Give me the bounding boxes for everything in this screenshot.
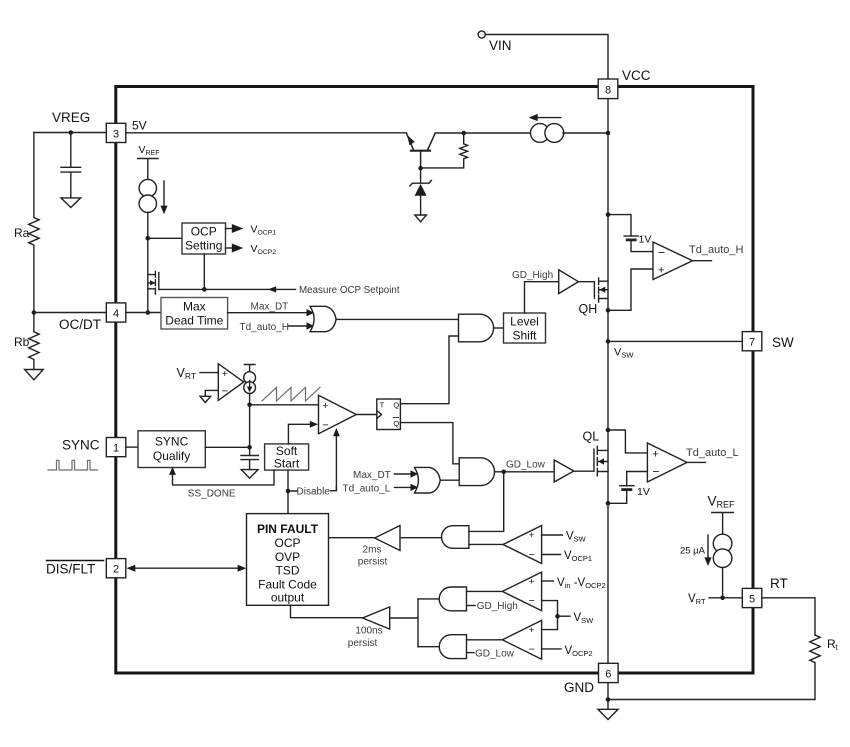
- ground under C2: [241, 470, 258, 479]
- svg-text:−: −: [529, 595, 535, 607]
- svg-text:Measure OCP Setpoint: Measure OCP Setpoint: [299, 285, 400, 296]
- wire Soft Start to comparator minus: [288, 424, 310, 444]
- wire pin6 to ground: [607, 683, 609, 710]
- wire AND1 to Level Shift: [494, 327, 504, 329]
- svg-text:+: +: [529, 530, 535, 541]
- wire U11 output: [687, 461, 706, 463]
- pin 3 box: [106, 123, 126, 142]
- svg-text:+: +: [222, 368, 228, 380]
- wire OR2 to AND2: [440, 479, 459, 481]
- wire Level Shift to GD_High buffer: [525, 282, 559, 313]
- svg-text:5V: 5V: [132, 119, 147, 133]
- svg-text:−: −: [652, 465, 659, 479]
- svg-text:OCP: OCP: [274, 536, 300, 550]
- wire AND2 output GD_Low: [495, 471, 555, 473]
- wire PIN FAULT to 2ms inverter: [329, 537, 375, 539]
- comparator U4 Td_auto_H: [653, 242, 693, 280]
- wire osc node down to cap: [249, 405, 251, 456]
- pin 8 box: [598, 79, 618, 99]
- wire U17 plus input: [542, 580, 554, 582]
- wire I1 to VCC rail: [563, 132, 608, 134]
- wire VRT to buffer: [200, 372, 218, 374]
- wire Max_DT to OR1: [228, 312, 307, 314]
- block Max Dead Time: [161, 298, 228, 330]
- svg-text:+: +: [322, 400, 328, 412]
- wire QL drain to comparator plus: [608, 430, 647, 453]
- svg-text:VREG: VREG: [52, 110, 90, 125]
- AND gate U9 (low-side gate): [459, 458, 494, 486]
- junction dot M1 to OC/DT: [146, 310, 151, 315]
- wire OCP node to OCP Setting box: [148, 237, 182, 239]
- wire U16 output: [418, 598, 439, 600]
- svg-text:VIN: VIN: [489, 38, 512, 53]
- wire Soft Start down to PIN FAULT: [287, 470, 289, 513]
- svg-text:QH: QH: [579, 302, 598, 316]
- wire DIS/FLT double arrow: [130, 567, 243, 569]
- svg-text:Max_DT: Max_DT: [353, 470, 391, 481]
- svg-text:Max_DT: Max_DT: [251, 302, 289, 313]
- wire battery to comparator minus: [631, 240, 653, 252]
- sawtooth waveform: [262, 387, 320, 401]
- svg-text:persist: persist: [348, 638, 378, 649]
- junction dot resistor top: [461, 131, 466, 136]
- block OCP Setting: [182, 223, 226, 254]
- wire U6 output to T FF: [356, 414, 377, 416]
- svg-text:5: 5: [749, 593, 755, 605]
- pin 7 box: [742, 332, 762, 351]
- junction dot VSW node: [606, 339, 611, 344]
- transistor QH: [599, 278, 608, 302]
- svg-text:+: +: [652, 449, 658, 461]
- AND gate U16 (GD_High gate, mirrored): [439, 587, 466, 611]
- stub GD_High into U16: [467, 605, 476, 607]
- output arrow VOCP1: [226, 228, 233, 230]
- sync pulse waveform: [48, 460, 98, 470]
- svg-text:Qualify: Qualify: [153, 449, 190, 463]
- OR gate U1 (high-side): [310, 306, 336, 331]
- svg-text:OC/DT: OC/DT: [59, 317, 101, 332]
- wire OCP Setting to measure line: [203, 254, 205, 289]
- resistor Rt: [608, 635, 820, 700]
- wire comparator1 to AND3: [469, 543, 503, 545]
- junction dot QH source sense: [606, 308, 611, 313]
- svg-text:1V: 1V: [637, 486, 650, 498]
- svg-text:RT: RT: [770, 576, 788, 591]
- wire U19 minus input VOCP2: [542, 648, 561, 650]
- M1 body arrow: [150, 280, 155, 285]
- OR gate U8 (low-side): [414, 467, 440, 493]
- wire U18 output: [418, 646, 439, 648]
- block SYNC Qualify: [138, 431, 205, 468]
- transistor M1 (OCP measure FET) gate bar and channel: [148, 272, 159, 295]
- wire Td_auto_H to OR1: [289, 325, 308, 327]
- current source I1 (VCC to 5V reg): [531, 124, 550, 143]
- current source I3 (osc charge): [244, 365, 255, 372]
- wire U4 output: [693, 260, 712, 262]
- svg-text:Td_auto_L: Td_auto_L: [686, 447, 739, 459]
- battery B1 1V: [624, 235, 638, 237]
- junction dot ground node: [606, 697, 611, 702]
- svg-text:Rb: Rb: [14, 335, 30, 349]
- svg-text:Q: Q: [393, 401, 399, 410]
- wire I4 to VRT node: [722, 568, 724, 598]
- Q1 emitter arrow: [407, 135, 415, 145]
- pin 2 box: [106, 559, 126, 578]
- svg-text:Setting: Setting: [185, 239, 222, 253]
- svg-text:output: output: [271, 591, 305, 605]
- junction dot QL source sense: [606, 501, 611, 506]
- junction dot Q1 base node: [418, 166, 423, 171]
- resistor R1 (base bleed): [421, 133, 468, 168]
- svg-text:Shift: Shift: [512, 329, 537, 343]
- wire OC/DT internal to Max Dead Time: [126, 312, 161, 314]
- svg-text:+: +: [529, 577, 535, 588]
- block Level Shift: [504, 313, 546, 343]
- svg-text:SW: SW: [772, 335, 794, 350]
- wire GD vertical to AND3 top input: [469, 472, 504, 532]
- svg-text:OCP: OCP: [191, 225, 217, 239]
- arrow I2 direction down: [163, 181, 165, 211]
- wire Max_DT to OR2: [395, 473, 412, 475]
- wire I2 to OCP Setting / M1 rail: [147, 212, 149, 312]
- block PIN FAULT: [247, 514, 329, 606]
- ground under Rb: [25, 370, 44, 380]
- wire OC/DT external: [34, 312, 106, 314]
- junction dot GD_Low: [501, 470, 506, 475]
- ground under C1: [61, 198, 81, 208]
- arrow I4 down: [707, 535, 709, 562]
- wire buffer to QH gate: [578, 282, 594, 298]
- svg-text:QL: QL: [583, 430, 600, 444]
- IC boundary box: [116, 87, 753, 674]
- AND gate U2 (high-side gate): [459, 314, 494, 342]
- wire comparator3 to U16: [467, 590, 503, 592]
- wire VIN to VCC pin: [485, 35, 608, 80]
- wire U14 minus input VOCP1: [542, 554, 561, 556]
- junction dot QH drain sense: [606, 212, 611, 217]
- pin 6 box: [599, 663, 619, 682]
- svg-text:Fault Code: Fault Code: [258, 578, 317, 592]
- svg-text:4: 4: [113, 308, 119, 320]
- junction dot VCC rail top: [606, 131, 611, 136]
- wire Td_auto_L to OR2: [395, 486, 412, 488]
- capacitor C1 (VREG bypass): [61, 133, 81, 198]
- svg-text:Ra: Ra: [14, 226, 30, 240]
- block Soft Start: [265, 444, 309, 470]
- buffer U3 (high-side driver): [559, 270, 579, 294]
- svg-text:GND: GND: [564, 680, 594, 695]
- svg-text:1: 1: [113, 443, 119, 455]
- svg-text:3: 3: [113, 128, 119, 140]
- svg-text:−: −: [222, 386, 228, 398]
- battery B2 1V: [620, 485, 634, 487]
- wire 5V rail Q1 collector to current source: [435, 132, 531, 134]
- svg-text:Max: Max: [183, 300, 206, 314]
- buffer U10 (low-side driver): [554, 460, 574, 482]
- inverter U15 (100ns persist): [363, 607, 390, 629]
- wire U12 to AND3: [400, 537, 442, 539]
- svg-text:100ns: 100ns: [355, 625, 382, 636]
- wire osc node to comparator plus: [250, 404, 319, 406]
- wire OR1 output to AND1: [336, 318, 458, 320]
- svg-text:GD_High: GD_High: [477, 601, 518, 612]
- wire U5 minus to ground: [205, 390, 218, 396]
- wire SYNC Qualify to osc node: [205, 446, 249, 448]
- junction dot sync qualify tap: [247, 445, 252, 450]
- wire U15 input bus: [390, 599, 418, 647]
- svg-text:SYNC: SYNC: [62, 438, 100, 453]
- wire Q to AND1 lower input: [400, 336, 458, 404]
- wire QH drain to 1V battery: [608, 215, 631, 236]
- zener diode D1: [410, 168, 432, 215]
- ground U5 minus: [200, 396, 211, 402]
- comparator U19 (VSW/VOCP2, mirrored): [502, 620, 541, 659]
- svg-text:2ms: 2ms: [363, 545, 382, 556]
- resistor Rb: [29, 313, 39, 370]
- svg-text:GD_High: GD_High: [512, 270, 553, 281]
- svg-text:6: 6: [605, 669, 611, 681]
- pin 5 box: [742, 588, 762, 607]
- output arrow VOCP2: [226, 247, 233, 249]
- svg-text:Td_auto_L: Td_auto_L: [343, 483, 391, 494]
- svg-text:TSD: TSD: [276, 564, 300, 578]
- svg-text:−: −: [529, 644, 535, 656]
- svg-text:Level: Level: [510, 315, 539, 329]
- wire QL source via battery to comparator minus: [608, 472, 647, 504]
- QL body arrow: [598, 458, 604, 464]
- wire U14 plus input VSW: [542, 534, 563, 536]
- ground under D1: [415, 215, 427, 222]
- comparator U11 Td_auto_L: [647, 443, 687, 482]
- svg-text:Q: Q: [393, 419, 399, 428]
- junction dot measure line: [202, 287, 207, 292]
- svg-text:8: 8: [605, 84, 611, 96]
- stub VSW label: [558, 615, 571, 617]
- transistor Q1 (NPN pass): [411, 150, 430, 152]
- wire VREG external (pin3 to divider top): [34, 132, 106, 134]
- VREF bar bottom right: [712, 513, 734, 535]
- ground main: [598, 709, 618, 719]
- svg-text:Disable: Disable: [297, 487, 331, 498]
- svg-text:Dead Time: Dead Time: [165, 314, 223, 328]
- svg-text:VCC: VCC: [622, 68, 651, 83]
- arrow I1 direction left: [531, 117, 561, 119]
- wire buffer to QL gate: [574, 449, 594, 471]
- AND gate U18 (GD_Low gate, mirrored): [439, 635, 466, 659]
- junction dot OCP node: [146, 236, 151, 241]
- svg-text:OVP: OVP: [275, 550, 300, 564]
- wire VRT node to pin5: [709, 597, 742, 599]
- capacitor C2 (osc): [241, 456, 258, 470]
- svg-text:7: 7: [749, 337, 755, 349]
- comparator U6 (PWM): [319, 395, 357, 433]
- svg-text:+: +: [658, 265, 664, 277]
- wire QH source to comparator plus: [608, 269, 653, 310]
- junction dot disable tap: [286, 489, 291, 494]
- svg-text:−: −: [529, 549, 535, 561]
- svg-text:−: −: [322, 419, 328, 431]
- wire measure OCP setpoint line: [159, 288, 296, 290]
- wire pin1 to SYNC Qualify: [126, 446, 138, 448]
- svg-text:DIS/FLT: DIS/FLT: [46, 562, 95, 577]
- svg-text:+: +: [529, 625, 535, 636]
- svg-text:SS_DONE: SS_DONE: [188, 489, 236, 500]
- QH body arrow: [599, 287, 605, 293]
- comparator U14 (VSW/VOCP1, mirrored): [503, 526, 542, 564]
- flip-flop U7 (T FF): [377, 399, 401, 430]
- junction dot osc node: [247, 403, 252, 408]
- current source I4 (25uA): [713, 534, 732, 553]
- junction dot QL drain sense: [606, 428, 611, 433]
- junction dot VREG cap tap: [69, 130, 74, 135]
- wire SS_DONE: [173, 470, 275, 485]
- wire U17 minus to VSW bus: [542, 601, 558, 630]
- svg-text:PIN FAULT: PIN FAULT: [257, 522, 319, 536]
- inverter U12 (2ms persist): [375, 526, 400, 551]
- svg-text:persist: persist: [358, 557, 388, 568]
- svg-text:GD_Low: GD_Low: [475, 648, 515, 659]
- svg-text:SYNC: SYNC: [155, 434, 189, 448]
- svg-text:T: T: [380, 401, 385, 410]
- arrowhead into comparator minus: [310, 421, 318, 428]
- wire disable tap to vertical: [288, 486, 336, 491]
- wire comparator4 to U18: [467, 639, 503, 641]
- wire 5V rail from pin3: [126, 132, 407, 134]
- op-amp U5 (RT buffer): [218, 364, 243, 401]
- junction dot VRT node: [720, 596, 725, 601]
- transistor QL: [597, 446, 608, 475]
- junction dot VSW bus: [555, 614, 560, 619]
- svg-text:−: −: [658, 245, 665, 259]
- svg-text:25 µA: 25 µA: [680, 546, 706, 557]
- terminal VIN circle: [478, 31, 485, 38]
- comparator U17 (Vin-VOCP2/VSW, mirrored): [502, 572, 541, 611]
- svg-text:Start: Start: [274, 456, 300, 470]
- svg-text:2: 2: [113, 564, 119, 576]
- pin 1 box: [106, 438, 126, 457]
- svg-text:Td_auto_H: Td_auto_H: [689, 244, 743, 256]
- wire pin5 to Rt: [762, 598, 815, 635]
- current source I2 (OCP setpoint): [139, 179, 156, 196]
- wire disable into U6 bottom: [335, 432, 337, 491]
- arrowhead measure line (points left): [268, 286, 276, 292]
- wire 100ns output to PIN FAULT: [291, 605, 363, 617]
- resistor Ra: [29, 133, 39, 313]
- wire Qbar to AND2 upper input: [400, 423, 459, 464]
- VCC rail vertical pin8 to pin6: [607, 99, 609, 664]
- pin 4 box: [106, 303, 126, 322]
- svg-text:GD_Low: GD_Low: [506, 460, 546, 471]
- AND gate U13 (OCP1 gate, mirrored): [442, 526, 469, 549]
- svg-text:Td_auto_H: Td_auto_H: [240, 322, 289, 333]
- junction dot divider mid: [32, 310, 37, 315]
- wire VSW to pin7: [608, 340, 742, 342]
- VREF supply bar (top-left): [138, 159, 158, 180]
- svg-text:1V: 1V: [639, 234, 652, 246]
- stub GD_Low into U18: [467, 652, 475, 654]
